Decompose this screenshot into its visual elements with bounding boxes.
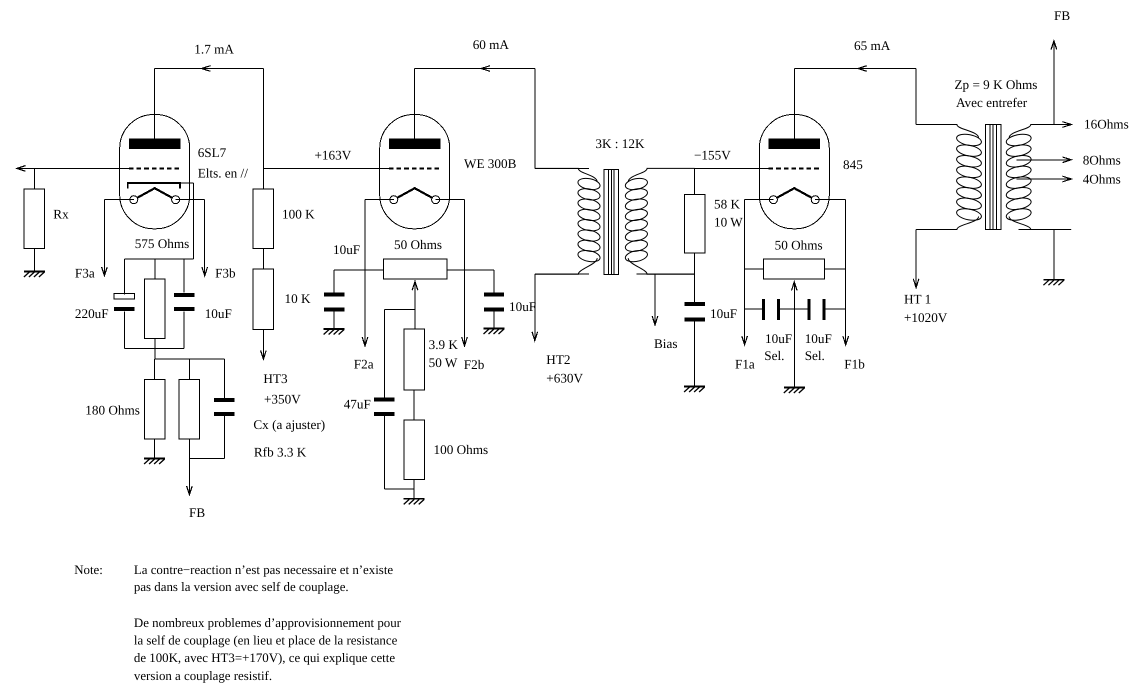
wire U3 anode to top rail: [793, 69, 795, 141]
capacitor C 220uF: [114, 293, 134, 299]
tube U2 WE 300B (envelope, anode, grid, filament): [380, 115, 450, 229]
wire cathode network top rail: [124, 258, 193, 260]
resistor R 575 Ohms: [145, 279, 166, 338]
svg-text:De nombreux problemes d’approv: De nombreux problemes d’approvisionnemen…: [134, 616, 402, 630]
wire T1 primary to HT2: [534, 274, 536, 340]
wire wiper down to 3.9K: [414, 281, 416, 329]
resistor Rx: [24, 189, 45, 249]
svg-text:−155V: −155V: [694, 147, 731, 162]
wire right 10uF to ground: [493, 312, 495, 329]
svg-text:8Ohms: 8Ohms: [1083, 152, 1121, 167]
arrow output to left: [17, 166, 26, 172]
wire 10uF bottom: [183, 312, 185, 349]
arrow HT3 supply: [261, 350, 267, 359]
svg-text:1.7 mA: 1.7 mA: [194, 42, 234, 57]
svg-text:FB: FB: [1054, 8, 1070, 23]
resistor R 100 Ohms: [404, 420, 425, 480]
arrow F1a: [742, 336, 748, 345]
wire feedback network top rail: [155, 358, 225, 360]
wire to cathode resistor: [154, 259, 156, 279]
arrow 8 Ohms tap: [1063, 157, 1072, 163]
svg-text:180 Ohms: 180 Ohms: [85, 403, 140, 418]
arrow F3b: [202, 267, 208, 276]
svg-text:47uF: 47uF: [344, 397, 371, 412]
svg-text:Avec entrefer: Avec entrefer: [956, 95, 1028, 110]
svg-text:10 W: 10 W: [714, 215, 743, 230]
wire filament caps rail: [745, 308, 764, 310]
transformer T2 core Zp=9K: [985, 125, 1001, 230]
svg-text:HT 1: HT 1: [904, 292, 931, 307]
arrow 16 Ohms tap: [1063, 122, 1072, 128]
svg-text:10uF: 10uF: [333, 242, 360, 257]
wire U1 anode to top rail: [154, 69, 156, 141]
wire to Rfb: [188, 359, 190, 380]
arrow hum pot wiper: [412, 281, 418, 290]
svg-text:La contre−reaction n’est pas n: La contre−reaction n’est pas necessaire …: [134, 563, 394, 577]
svg-text:FB: FB: [189, 505, 205, 520]
arrow 4 Ohms tap: [1063, 176, 1072, 182]
svg-text:version a couplage resistif.: version a couplage resistif.: [134, 669, 272, 683]
wire left 10uF to ground: [333, 312, 335, 330]
potentiometer 50 Ohms hum balance U3: [764, 259, 825, 279]
svg-text:F1b: F1b: [844, 356, 865, 371]
wire 1.7mA top rail: [155, 68, 264, 70]
svg-text:50 W: 50 W: [429, 355, 458, 370]
wire 65mA top rail: [794, 68, 916, 70]
wire hum pot left lead: [334, 269, 384, 271]
ground under 180 Ohms: [144, 459, 165, 465]
svg-text:10uF: 10uF: [765, 331, 792, 346]
svg-text:+163V: +163V: [315, 148, 352, 163]
svg-text:Rfb 3.3 K: Rfb 3.3 K: [254, 444, 307, 459]
wire U3 filament left to F1a: [745, 199, 774, 201]
arrow HT1 supply: [913, 279, 919, 288]
wire T2 secondary bottom to ground: [1019, 229, 1054, 231]
svg-text:10 K: 10 K: [285, 291, 311, 306]
svg-text:10uF: 10uF: [205, 306, 232, 321]
capacitor C 47uF: [374, 397, 394, 401]
resistor R 10K: [253, 269, 274, 330]
wire 575 Ohms bottom: [154, 338, 156, 348]
transformer T1 primary winding: [577, 177, 601, 192]
wire top rail down to node +163V and 100K: [262, 69, 264, 189]
svg-text:+350V: +350V: [264, 392, 301, 407]
svg-text:575 Ohms: 575 Ohms: [135, 236, 190, 251]
svg-text:3K : 12K: 3K : 12K: [595, 136, 645, 151]
svg-text:Elts. en //: Elts. en //: [198, 165, 249, 180]
wire 220uF bottom: [123, 312, 125, 349]
svg-text:F2b: F2b: [464, 357, 485, 372]
wire 8 Ohms tap: [1017, 159, 1072, 161]
arrow F1b: [843, 336, 849, 345]
svg-text:Note:: Note:: [74, 563, 103, 577]
wire Rfb bottom to FB arrow: [188, 439, 190, 495]
tube U1 6SL7 driver (envelope, anode, grid, filament): [120, 115, 190, 229]
wire FB riser: [1053, 41, 1055, 125]
wire U2 filament left to F2a: [365, 199, 394, 201]
svg-text:F1a: F1a: [735, 356, 755, 371]
svg-text:4Ohms: 4Ohms: [1083, 172, 1121, 187]
wire 100 Ohms to ground: [413, 479, 415, 499]
wire Cx bottom: [223, 416, 225, 459]
wire U1 grid to output node: [17, 167, 129, 169]
arrow HT2 supply: [532, 332, 538, 341]
svg-text:845: 845: [843, 157, 863, 172]
wire Bias tap: [654, 274, 656, 325]
wire to 10uF cathode cap: [183, 259, 185, 293]
wire bias cap to ground: [694, 322, 696, 387]
svg-text:Rx: Rx: [53, 207, 69, 222]
capacitor C 10uF Sel right: [807, 299, 810, 320]
svg-text:F3a: F3a: [75, 266, 95, 281]
svg-text:Sel.: Sel.: [805, 348, 825, 363]
svg-text:10uF: 10uF: [509, 299, 536, 314]
wire to left 10uF: [333, 270, 335, 293]
wire 47uF branch: [384, 308, 415, 310]
ground under left 10uF: [324, 329, 345, 335]
wire Rfb-Cx bottom link: [189, 458, 224, 460]
wire T1 primary top lead: [535, 167, 589, 169]
wire 4 Ohms tap: [1017, 178, 1072, 180]
svg-text:10uF: 10uF: [710, 306, 737, 321]
svg-text:6SL7: 6SL7: [198, 145, 227, 160]
transformer T1 core 3K:12K: [604, 169, 619, 274]
svg-text:50 Ohms: 50 Ohms: [394, 237, 442, 252]
wire U3 filament right to F1b: [815, 199, 846, 201]
wire link to feedback network: [154, 349, 156, 359]
ground under Rx: [24, 272, 45, 278]
arrow hum pot U3 wiper: [792, 282, 798, 291]
wire U3 wiper to ground: [793, 282, 795, 388]
capacitor C 10uF right of hum pot: [484, 293, 504, 297]
arrow FB output: [187, 486, 193, 495]
wire hum pot right lead: [447, 269, 494, 271]
svg-text:100 K: 100 K: [282, 207, 315, 222]
ground under 100 Ohms: [404, 499, 425, 505]
capacitor C 10uF cathode: [174, 293, 194, 297]
svg-text:pas dans la version avec self: pas dans la version avec self de couplag…: [134, 580, 349, 594]
svg-text:WE 300B: WE 300B: [464, 156, 517, 171]
wire top rail down to T2 primary: [915, 69, 917, 125]
ground under bias cap: [684, 387, 705, 393]
wire U1 filament left to F3a: [104, 199, 133, 201]
capacitor C 10uF left of hum pot: [324, 293, 344, 297]
arrow F2a: [362, 337, 368, 346]
capacitor Cx: [214, 398, 235, 402]
resistor R 3.9K 50W: [404, 329, 425, 390]
svg-text:la self de couplage (en lieu e: la self de couplage (en lieu et place de…: [134, 633, 398, 647]
wire U1 filament right to F3b: [176, 199, 205, 201]
arrow F3a: [102, 267, 108, 276]
svg-text:HT3: HT3: [263, 371, 288, 386]
svg-text:50 Ohms: 50 Ohms: [775, 237, 823, 252]
wire to right 10uF: [493, 270, 495, 293]
wire 10K to HT3 arrow: [262, 329, 264, 359]
wire to 180 Ohms: [154, 359, 156, 380]
capacitor C 10uF Sel left: [762, 299, 765, 320]
resistor R 100K: [253, 189, 274, 249]
wire cathode network bottom rail: [124, 348, 184, 350]
transformer T2 primary winding: [956, 132, 983, 147]
transformer T1 secondary winding: [624, 177, 648, 192]
wire Rx top: [33, 168, 35, 188]
arrow 1.7 mA current direction: [202, 66, 211, 72]
resistor Rfb 3.3K: [179, 380, 200, 440]
arrow F2b: [462, 337, 468, 346]
wire 58K bottom to bias cap: [694, 253, 696, 302]
wire 60mA top rail: [415, 68, 535, 70]
svg-text:Cx (a ajuster): Cx (a ajuster): [253, 417, 325, 432]
transformer T2 secondary winding: [1005, 132, 1032, 147]
svg-text:F2a: F2a: [354, 357, 374, 372]
svg-text:Bias: Bias: [654, 336, 677, 351]
wire top rail down to T1 primary: [534, 69, 536, 169]
svg-text:60 mA: 60 mA: [473, 37, 510, 52]
wire T2 primary bottom to HT1: [915, 230, 917, 288]
svg-text:Zp = 9 K Ohms: Zp = 9 K Ohms: [955, 77, 1038, 92]
tube U3 845 (envelope, anode, grid, filament): [759, 115, 829, 229]
wire -155V secondary top lead to 845 grid: [695, 167, 770, 169]
potentiometer 50 Ohms hum balance U2: [384, 259, 447, 279]
resistor R 180 Ohms: [144, 380, 165, 440]
wire T1 primary bottom lead: [535, 273, 589, 275]
svg-text:3.9 K: 3.9 K: [429, 337, 459, 352]
ground under U3 wiper: [784, 388, 805, 394]
arrow FB up: [1051, 41, 1057, 50]
wire U1 cathode down to cathode network: [180, 182, 194, 184]
wire 3.9K to 100 Ohms: [413, 390, 415, 420]
wire hum pot U3 left lead: [745, 268, 764, 270]
wire hum pot U3 right lead: [825, 268, 846, 270]
arrow 60 mA current direction: [481, 66, 490, 72]
capacitor C 10uF bias: [684, 302, 704, 306]
svg-text:10uF: 10uF: [805, 331, 832, 346]
wire to 220uF top: [123, 259, 125, 295]
svg-text:100 Ohms: 100 Ohms: [434, 442, 489, 457]
svg-text:+630V: +630V: [546, 370, 583, 385]
svg-text:Sel.: Sel.: [764, 348, 784, 363]
wire 47uF bottom: [383, 416, 385, 489]
svg-text:HT2: HT2: [546, 352, 570, 367]
wire 180 Ohms to ground: [154, 439, 156, 458]
wire U2 anode to top rail: [414, 69, 416, 141]
svg-text:58 K: 58 K: [714, 197, 740, 212]
wire to 58K: [694, 168, 696, 194]
wire Rx bottom: [33, 249, 35, 272]
svg-text:de 100K, avec HT3=+170V), ce q: de 100K, avec HT3=+170V), ce qui expliqu…: [134, 651, 395, 665]
svg-text:F3b: F3b: [215, 266, 236, 281]
svg-text:65 mA: 65 mA: [854, 38, 891, 53]
wire +163V node to 300B grid: [263, 167, 389, 169]
svg-text:16Ohms: 16Ohms: [1084, 117, 1129, 132]
resistor R 58K 10W: [684, 195, 704, 254]
wire between 100K and 10K: [262, 249, 264, 269]
svg-text:220uF: 220uF: [75, 306, 109, 321]
arrow Bias: [652, 316, 658, 325]
arrow 65 mA current direction: [858, 66, 867, 72]
wire U2 filament right to F2b: [436, 199, 465, 201]
wire T1 secondary bottom rail: [636, 273, 694, 275]
ground under T2 secondary: [1043, 280, 1064, 286]
wire to Cx: [223, 359, 225, 398]
ground under right 10uF: [484, 329, 505, 335]
svg-text:+1020V: +1020V: [904, 310, 948, 325]
